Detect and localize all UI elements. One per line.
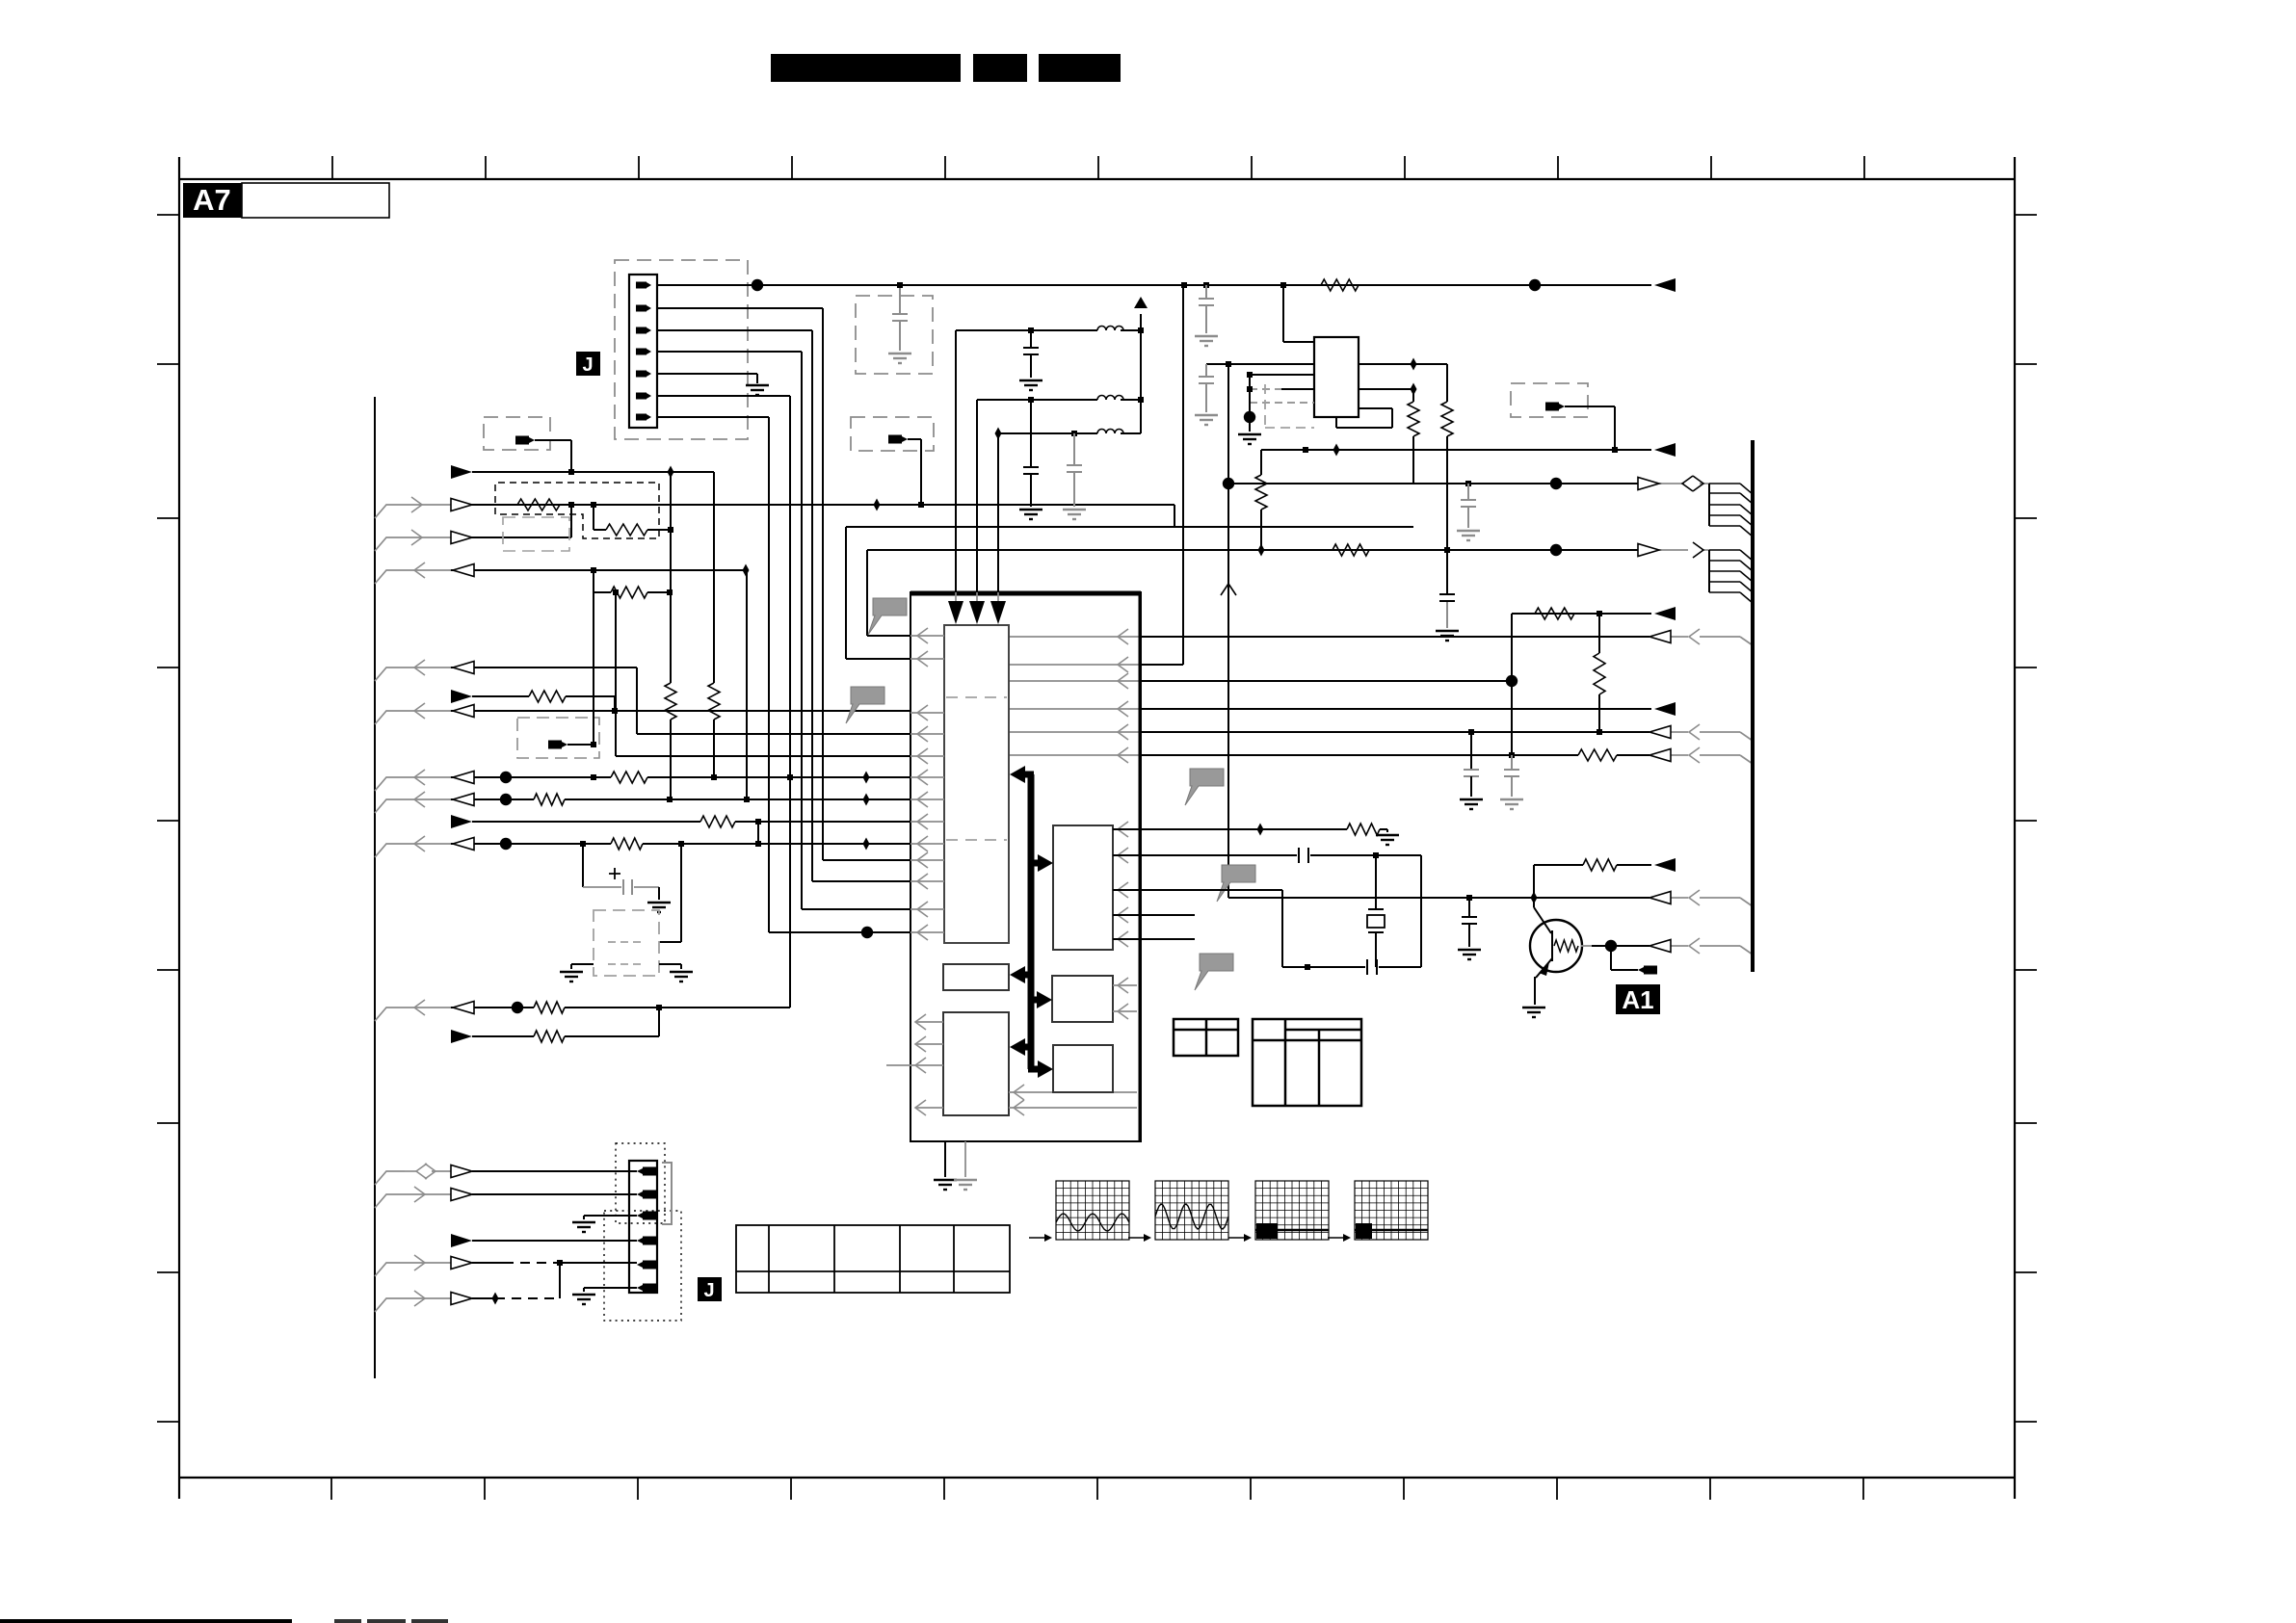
wire U2 tab — [1336, 408, 1392, 428]
arrow row898 — [1654, 858, 1676, 872]
wire J1 pin7 vert — [657, 417, 769, 932]
wire row736 — [1009, 708, 1651, 710]
connector J1 pins — [636, 282, 651, 421]
svg-text:J: J — [582, 354, 593, 376]
arrow row502 — [1638, 478, 1659, 490]
arrow row784 end — [1649, 749, 1671, 762]
junction row571 dot — [1550, 544, 1562, 556]
wire vert x1275 — [1227, 364, 1229, 898]
wire row661 — [1009, 637, 1753, 645]
wire row915 — [812, 880, 910, 882]
resistor R807 — [611, 772, 647, 783]
junction pin1 dot — [752, 279, 763, 291]
resistor Rv741 — [708, 683, 720, 720]
wire row807 — [405, 776, 910, 778]
wire row738 — [405, 710, 910, 712]
junction row830 diamond — [863, 794, 870, 806]
junction row524 diamond — [874, 499, 881, 511]
junction P5 sq — [591, 742, 596, 747]
waveform W3 — [1255, 1181, 1329, 1240]
wire vert x878 — [846, 527, 910, 659]
pin arrow row707 — [1118, 673, 1128, 689]
waveform W1 — [1056, 1181, 1129, 1240]
wire row558 — [405, 537, 571, 538]
ground ecap — [647, 903, 671, 912]
capacitor C1070a — [1023, 330, 1039, 378]
ground module right — [670, 972, 693, 982]
junction row502 dot — [1550, 478, 1562, 489]
capacitor C1070b — [1023, 400, 1039, 507]
frame left ticks — [157, 215, 179, 1422]
wire vert x639 — [616, 592, 910, 756]
module box gray 558 — [503, 517, 569, 551]
junction row415 sq — [1028, 397, 1034, 403]
wire ecap branch — [583, 844, 659, 900]
junction U2p sqA — [1247, 372, 1253, 378]
wire row760 — [1009, 732, 1753, 741]
waveform W2 — [1155, 1181, 1228, 1240]
wire row467 — [1261, 449, 1651, 451]
wire U2 top — [1283, 285, 1314, 342]
wire U2 out1 — [1359, 364, 1447, 402]
wire row830 — [405, 798, 910, 800]
frame top ticks — [332, 156, 1864, 179]
wire vert x992 — [955, 330, 957, 591]
module box dashed top — [856, 296, 933, 374]
chevron row932 — [1689, 890, 1700, 905]
capacitor C1252b — [1199, 364, 1214, 412]
wire row932 — [1228, 898, 1753, 906]
junction row524 sqB — [591, 502, 596, 508]
resistor R615 — [594, 587, 670, 598]
label J2 — [698, 1277, 722, 1301]
wire gnd right — [659, 964, 681, 969]
wire drop x616a — [593, 505, 594, 530]
wire row1288 — [472, 1240, 637, 1242]
inductor L343 — [1097, 327, 1123, 331]
ground C1527 — [1460, 799, 1483, 809]
arrow row467 — [1654, 443, 1676, 457]
junction row932 sq — [1466, 895, 1472, 901]
wire row592 ext — [594, 569, 746, 571]
inductor L415 — [1097, 396, 1123, 401]
waveform W4 arrow — [1328, 1234, 1351, 1242]
junction row968 dot — [861, 927, 873, 938]
junction row502 dot — [1223, 478, 1234, 489]
junction row467 sqA — [1303, 447, 1308, 453]
arrow row1046 — [453, 1002, 474, 1014]
module inner dash b — [608, 963, 646, 965]
wire row1216 — [405, 1170, 637, 1172]
wire U2 left pins — [1250, 375, 1314, 403]
plug P-left — [515, 436, 535, 445]
resistor Rv1309 — [1255, 475, 1267, 510]
table A — [1174, 1019, 1238, 1056]
junction row876 dot — [500, 838, 512, 850]
pin arrow row784 — [1118, 747, 1128, 763]
arrow row558 — [451, 532, 472, 544]
serial bus thick — [1010, 766, 1053, 1078]
chevron row760 — [1689, 724, 1700, 740]
note flag 3 — [1185, 769, 1224, 805]
junction row571 sq — [1444, 547, 1450, 553]
resistor R524 — [517, 499, 560, 510]
module inner dash a — [608, 941, 646, 943]
note flag 1 — [868, 598, 907, 635]
ground Q1 — [1522, 1008, 1545, 1017]
wire row898 — [1534, 864, 1651, 866]
IC U1 core — [944, 625, 1009, 943]
chevron row661 — [1689, 629, 1700, 644]
IC U1 outer box — [910, 592, 1141, 1141]
ground C1070a — [1019, 380, 1042, 390]
junction row1046 sq — [656, 1005, 662, 1010]
arrow base — [1649, 940, 1671, 953]
IC U1 divider a — [946, 696, 1007, 698]
junction row830 sqB — [744, 797, 750, 802]
arrow row738 — [453, 705, 474, 718]
note flag 5 — [1195, 954, 1233, 990]
capacitor C1252a — [1199, 282, 1214, 333]
wire row1240 — [405, 1193, 637, 1195]
chevron row693 — [414, 660, 425, 675]
junction row378 sq — [1226, 361, 1231, 367]
signal table — [736, 1225, 1010, 1293]
arrow row1216 — [451, 1165, 472, 1178]
junction row1004 sq — [1305, 964, 1310, 970]
wire row944 — [802, 908, 910, 910]
junction row592 sq — [591, 567, 596, 573]
junction row830 sqA — [667, 797, 673, 802]
wire IC gnd a — [944, 1141, 946, 1177]
wire row524 — [405, 504, 1174, 506]
junction row467 diamond — [1333, 444, 1340, 457]
junction pin1 sq — [1280, 282, 1286, 288]
capacitor C-top — [892, 282, 908, 351]
junction row1046 dot — [512, 1002, 523, 1013]
wire P5 — [567, 744, 594, 746]
junction row467 sqB — [1612, 447, 1618, 453]
junction base dot — [1605, 940, 1617, 952]
resistor R853 — [700, 816, 735, 827]
wire drop x707 — [659, 844, 681, 942]
wire row490 — [472, 471, 714, 473]
junction row876 diamond — [863, 838, 870, 851]
ground C-top — [888, 353, 911, 363]
ground C1525 — [1458, 950, 1481, 959]
label A1 — [1616, 984, 1660, 1014]
arrow pin1 left — [1654, 278, 1676, 292]
wire row1076 — [472, 1008, 659, 1036]
capacitor C1569 — [1504, 770, 1519, 797]
wire IC gnd b — [964, 1141, 966, 1177]
IC mid block — [1053, 825, 1113, 950]
IC left pin arrows — [910, 628, 944, 940]
svg-text:A7: A7 — [193, 183, 231, 217]
capacitor C1525 — [1462, 898, 1477, 947]
IC sub-block B — [943, 964, 1009, 990]
chevron row1348 — [414, 1291, 425, 1306]
wire row1262 gnd — [584, 1216, 637, 1219]
wire vert x1014 — [976, 400, 978, 591]
pin arrow row661 — [1118, 629, 1128, 644]
connector J1 body — [629, 275, 657, 428]
IC mid block pin arrows — [1118, 822, 1128, 947]
junction row615 sq — [667, 589, 673, 595]
wire row547 — [846, 526, 1413, 528]
wire vert x1228 — [1182, 285, 1184, 665]
capacitor C888 — [1299, 848, 1308, 863]
arrow row693 — [453, 662, 474, 674]
module dash U2 — [1265, 384, 1314, 428]
wire row888 — [1113, 855, 1421, 967]
chevron row1046 — [414, 1000, 425, 1015]
junction row876 sqA — [580, 841, 586, 847]
connector J1 dashed box — [615, 260, 748, 439]
wire row784 — [1009, 755, 1753, 764]
module box dashed right — [1511, 383, 1588, 417]
wire J1 pin1 net — [657, 284, 1651, 286]
chevron row876 — [414, 836, 425, 851]
wire row378 — [1206, 363, 1314, 365]
connector J2 pins — [637, 1167, 656, 1293]
wire U2 out2 — [1359, 389, 1413, 402]
junction row876 sqC — [755, 841, 761, 847]
chevron base — [1689, 938, 1700, 954]
left bus wire — [374, 397, 376, 1378]
right bus wire — [1751, 440, 1755, 972]
wire row502 — [1228, 483, 1709, 484]
plug P-A1 — [1638, 966, 1657, 975]
junction row807 sqB — [711, 774, 717, 780]
resistor R861 — [1347, 824, 1380, 835]
wire vert x1592 — [1533, 865, 1535, 898]
ground C1252a — [1195, 336, 1218, 346]
chevron x1275 up — [1221, 584, 1236, 595]
junction row502 sq — [1465, 481, 1471, 486]
ground C1115 — [1063, 510, 1086, 519]
ground IC b — [954, 1180, 977, 1190]
arrow row1240 — [451, 1189, 472, 1201]
wire row723 — [472, 696, 615, 711]
frame bottom ticks — [331, 1478, 1863, 1500]
ground C1524a — [1457, 531, 1480, 540]
junction row807 sqA — [591, 774, 596, 780]
junction row550 sq — [668, 527, 673, 533]
arrow row1311 — [451, 1257, 472, 1270]
wire base plug — [1611, 946, 1638, 970]
capacitor C1527 — [1464, 732, 1479, 797]
pin arrow row690 — [1118, 657, 1128, 672]
resistor R830 — [534, 794, 565, 805]
label J1 — [576, 352, 600, 376]
arrow row932 — [1649, 892, 1671, 904]
arrow row876 — [453, 838, 474, 851]
frame right ticks — [2015, 215, 2037, 1422]
arrow row853 — [451, 815, 472, 828]
arrow row1348 — [451, 1293, 472, 1305]
junction row490 diamond — [668, 466, 674, 479]
wire Rv1502 ext — [1446, 436, 1448, 628]
wire row1311 — [405, 1262, 637, 1264]
wire Q1 base — [1581, 946, 1753, 955]
resistor R876 — [611, 838, 643, 850]
transistor Q1 — [1530, 920, 1582, 976]
wire row1337 gnd — [584, 1288, 637, 1292]
waveform W2 arrow — [1128, 1234, 1151, 1242]
resistor R784 — [1578, 749, 1617, 761]
wire row690 — [1009, 664, 1183, 666]
IC sub-block D — [1052, 976, 1113, 1022]
ground module left — [560, 972, 583, 982]
component box dashed 524 — [495, 483, 659, 538]
wire vert x1297 — [1249, 375, 1251, 432]
ground C1070b — [1019, 510, 1042, 519]
plug P-mid — [888, 435, 908, 444]
junction row490 sq — [568, 469, 574, 475]
regulator U2 — [1314, 337, 1359, 417]
junction pin1 dot2 — [1529, 279, 1541, 291]
junction row524 sqA — [568, 502, 574, 508]
capacitor C1502 — [1439, 594, 1455, 601]
title redaction bar 1 — [771, 54, 961, 82]
resistor R637 — [1535, 608, 1574, 619]
plug P-right — [1545, 403, 1565, 411]
waveform W3 arrow — [1228, 1234, 1252, 1242]
resistor Rv1502 — [1441, 402, 1453, 436]
IC sub-block C — [943, 1012, 1009, 1115]
wire row1348 — [405, 1297, 560, 1299]
title redaction bar 2 — [973, 54, 1027, 82]
symbol bidir row502 — [1682, 476, 1703, 491]
junction row571 diamond — [1258, 544, 1265, 557]
junction row592 diamond — [743, 564, 750, 577]
junction row760 sqB — [1597, 729, 1602, 735]
waveform W4 — [1355, 1181, 1428, 1240]
ground IC a — [934, 1180, 957, 1190]
table B — [1253, 1019, 1361, 1106]
bus branch stubs — [375, 505, 405, 1312]
junction row861 diamond — [1257, 824, 1264, 836]
pin arrow row760 — [1118, 724, 1128, 740]
capacitor C-el — [609, 868, 632, 895]
bus ripper fan2 — [1709, 550, 1753, 603]
connector J2 dotted box b — [604, 1211, 681, 1321]
wire row415 — [977, 399, 1141, 401]
wire Rv1467 ext — [1412, 436, 1414, 484]
wire J1 pin6 vert — [657, 396, 790, 1008]
sheet label A7 — [183, 183, 389, 218]
wire row450 — [998, 432, 1141, 434]
wire row524 drop — [1174, 505, 1175, 527]
wire drop x593 — [570, 505, 572, 537]
wire row853 — [472, 821, 910, 823]
crystal X1 — [1367, 855, 1385, 967]
chevron row592 — [414, 563, 425, 578]
wire row637 — [1512, 613, 1651, 615]
junction pin1 T — [1181, 282, 1187, 288]
chevron row807 — [414, 770, 425, 785]
arrow row524 — [451, 499, 472, 511]
arrow row592 — [453, 564, 474, 577]
chevron row571 — [1693, 542, 1703, 558]
wire row968 — [769, 931, 910, 933]
wire vert x1036 — [997, 433, 999, 591]
wire J1 pin5 gnd — [657, 374, 757, 383]
inductor L450 — [1097, 430, 1123, 434]
junction out2 diamond — [1411, 383, 1417, 396]
arrow row760 end — [1649, 726, 1671, 739]
symbol bidir row1216 — [416, 1164, 435, 1179]
junction row830 dot — [500, 794, 512, 805]
chevron row1311 — [414, 1255, 425, 1270]
junction x1297 dot — [1244, 411, 1255, 423]
chevron row558 — [411, 530, 422, 545]
wire vert x787 — [757, 822, 759, 844]
footer text remnants — [334, 1619, 448, 1623]
capacitor C1524a — [1461, 484, 1476, 528]
note flag 2 — [846, 687, 884, 723]
wire row693 — [405, 668, 910, 734]
wire vert x900 — [867, 550, 910, 636]
IC sub-block C pins — [886, 1014, 1137, 1115]
arrow row571 — [1638, 544, 1659, 557]
resistor R723 — [529, 691, 566, 702]
module box dashed left — [484, 417, 550, 450]
arrow row807 — [453, 772, 474, 784]
resistor R1076 — [534, 1031, 565, 1042]
wire row924 — [1113, 890, 1282, 967]
junction row637 sq — [1597, 611, 1602, 616]
junction row343 sq — [1028, 327, 1034, 333]
wire P-mid — [908, 439, 921, 505]
junction row807 sqC — [787, 774, 793, 780]
wire gnd left — [571, 964, 594, 969]
resistor Rv696 — [665, 683, 676, 720]
arrow row661 — [1649, 631, 1671, 643]
wire row950 — [1113, 914, 1195, 916]
wire row592 — [405, 569, 594, 571]
junction row738 sq — [612, 708, 618, 714]
junction row343 sqB — [1138, 327, 1144, 333]
capacitor C1004 — [1367, 959, 1377, 975]
bottom-left footer bar — [0, 1619, 292, 1623]
connector J2 body — [629, 1161, 657, 1293]
svg-text:A1: A1 — [1622, 985, 1653, 1014]
junction U2p sqB — [1247, 386, 1253, 392]
wire Q1 emitter — [1535, 958, 1552, 1005]
wire J1 pin3 vert — [657, 330, 812, 881]
chevron row830 — [414, 792, 425, 807]
pin arrow row736 — [1118, 701, 1128, 717]
wire row1046 — [405, 1007, 790, 1008]
junction row807 diamond — [863, 772, 870, 784]
junction row1348 diamond — [492, 1293, 499, 1305]
capacitor C1115 — [1067, 433, 1082, 507]
junction row415 sqB — [1138, 397, 1144, 403]
junction row524 sqC — [918, 502, 924, 508]
wire vert x775 — [746, 570, 748, 799]
junction row888 sq — [1373, 852, 1379, 858]
wire vert x1309 — [1260, 450, 1262, 550]
wire drop x616b — [593, 570, 594, 745]
resistor R571 — [1333, 544, 1369, 556]
arrow row723 — [451, 690, 472, 703]
wire row571 — [867, 549, 1709, 551]
wire Q1 collector — [1534, 898, 1551, 933]
plug P5 — [548, 741, 567, 749]
chevron row1240 — [414, 1187, 425, 1202]
